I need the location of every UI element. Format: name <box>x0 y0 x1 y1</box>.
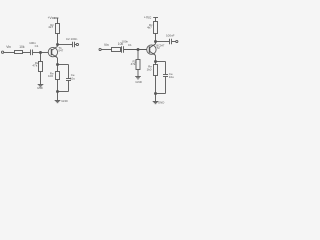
wire input to R1 <box>4 52 15 54</box>
wire junction down to R6 <box>137 50 139 60</box>
wire input to R5 <box>101 49 111 51</box>
svg-text:C1: C1 <box>128 43 132 47</box>
resistor R5 series input <box>112 48 121 52</box>
wire junction down to R2 <box>40 53 42 62</box>
svg-text:10k: 10k <box>19 45 25 49</box>
svg-text:Vin: Vin <box>104 43 109 47</box>
wire RE bottom to ground left <box>57 80 59 101</box>
input terminal Vin left <box>1 51 3 53</box>
svg-text:47k: 47k <box>32 64 37 68</box>
transistor T1 <box>48 47 57 56</box>
Vcc bar left <box>54 17 58 19</box>
resistor R4 emitter <box>56 72 60 80</box>
capacitor C4 input coupling <box>121 46 123 53</box>
resistor R1 series input <box>15 51 23 54</box>
svg-text:GND: GND <box>37 86 43 90</box>
wire emitter down right <box>155 55 157 64</box>
wire R6 to ground <box>137 70 139 77</box>
svg-text:100: 100 <box>48 74 53 78</box>
svg-text:T2: T2 <box>156 46 160 50</box>
wire C2 to output terminal <box>75 44 76 46</box>
svg-text:GND: GND <box>158 101 164 105</box>
wire tap to C2 <box>58 44 73 46</box>
ground emitter left <box>55 100 61 102</box>
output terminal right <box>176 40 178 42</box>
node emitter junction left <box>57 64 59 66</box>
svg-text:47k: 47k <box>131 62 136 66</box>
resistor R6 base pulldown <box>136 60 140 70</box>
wire emitter junction to C3 branch <box>58 64 69 66</box>
node base junction left <box>40 52 42 54</box>
node collector tap right <box>155 41 157 43</box>
svg-text:4k7: 4k7 <box>48 25 53 29</box>
capacitor C6 emitter bypass <box>163 74 168 76</box>
wire collector rail right <box>155 34 157 45</box>
svg-text:4k7: 4k7 <box>147 26 152 30</box>
wire RE bottom to ground right <box>155 76 157 102</box>
wire bottom join left <box>58 91 69 93</box>
input terminal Vin right <box>99 48 101 50</box>
transistor T2 <box>147 45 156 54</box>
svg-text:1k0: 1k0 <box>147 67 152 71</box>
ground pulldown left <box>38 84 44 86</box>
svg-text:10u: 10u <box>169 75 174 79</box>
capacitor C1 input coupling <box>30 50 32 56</box>
node bottom join right <box>155 93 157 95</box>
wire C5 to output terminal <box>172 41 176 43</box>
ground pulldown right <box>135 76 141 78</box>
wire C4 to base <box>124 49 147 51</box>
wire collector rail left <box>57 34 59 47</box>
capacitor C2 output <box>72 42 74 48</box>
wire emitter junction to C6 branch <box>156 61 166 63</box>
node base junction right <box>137 49 139 51</box>
wire emitter down left <box>57 58 59 72</box>
svg-text:C2 100n: C2 100n <box>66 37 78 41</box>
svg-text:GND: GND <box>135 80 141 84</box>
svg-text:GND: GND <box>61 99 67 103</box>
wire bottom join right <box>156 93 166 95</box>
wire Vcc to R7 <box>155 18 157 22</box>
resistor R7 collector <box>154 22 158 34</box>
svg-text:10u: 10u <box>70 77 75 81</box>
wire R1 to C1 <box>23 52 31 54</box>
wire R2 to ground <box>40 72 42 85</box>
svg-text:C1: C1 <box>35 44 39 48</box>
node bottom join left <box>57 91 59 93</box>
wire C1 to base <box>33 52 48 54</box>
capacitor C3 emitter bypass <box>66 78 71 80</box>
wire Vcc to R3 <box>57 18 59 24</box>
resistor R3 collector <box>56 24 60 34</box>
node emitter junction right <box>155 61 157 63</box>
wire tap to C5 <box>156 41 170 43</box>
resistor R2 base pulldown <box>39 62 43 72</box>
capacitor C5 output <box>169 39 171 45</box>
svg-text:547: 547 <box>58 49 63 53</box>
output terminal left <box>76 43 78 45</box>
svg-text:Vin: Vin <box>6 45 11 49</box>
node collector tap left <box>57 44 59 46</box>
wire R5 to C4 <box>120 49 123 51</box>
svg-text:+Vcc: +Vcc <box>48 16 56 20</box>
svg-text:100nF: 100nF <box>166 34 175 38</box>
ground emitter right <box>153 101 159 103</box>
Vcc bar right <box>153 17 158 19</box>
svg-text:+Vcc: +Vcc <box>144 16 152 20</box>
resistor R8 emitter <box>154 65 158 76</box>
